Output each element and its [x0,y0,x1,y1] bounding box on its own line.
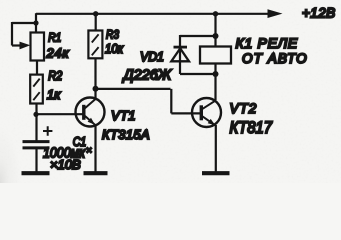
power arrow +12V [268,5,336,20]
node junction R1 wiper [33,20,38,25]
svg-text:×: × [86,145,92,156]
node diode branch bottom [213,71,219,77]
svg-text:R3: R3 [106,28,119,42]
resistor R3 body [88,31,102,59]
wire node to VT1 base [36,113,84,115]
svg-text:Д226Ж: Д226Ж [122,68,173,84]
wire top +12V supply rail [36,13,270,15]
wire diode branch left [179,35,181,74]
ground bar VT2 [202,171,230,175]
svg-text:VT2: VT2 [230,101,258,116]
wire wiper loop horizontal [12,22,37,24]
wire VT2 emitter to ground [215,125,217,172]
svg-text:R1: R1 [48,31,61,45]
wire R1 to R2 [36,61,38,76]
svg-text:+12В: +12В [302,5,336,20]
node base junction [33,112,38,117]
wire VT1 emitter to ground [94,125,96,172]
capacitor C1 [23,126,53,148]
svg-text:КТ315А: КТ315А [102,127,150,142]
node VT1 collector junction [93,86,99,92]
svg-text:VD1: VD1 [140,49,164,64]
wire diode branch bottom [180,73,216,75]
wire rail down to relay [214,14,216,47]
node rail to relay branch [213,11,218,16]
svg-text:ОТ АВТО: ОТ АВТО [242,51,308,66]
wire collector node to VT2 base [96,89,203,114]
svg-text:КТ817: КТ817 [230,119,273,137]
relay K1 coil [200,47,231,64]
diode VD1 [171,47,189,61]
svg-text:1к: 1к [47,87,61,102]
svg-text:К1 РЕЛЕ: К1 РЕЛЕ [236,35,298,51]
wire wiper loop vertical [11,22,13,46]
wire rail left drop to R1 [35,13,37,33]
node rail to R3 [93,11,98,16]
wire R2 to node and C1 [35,103,37,141]
svg-text:×10В: ×10В [50,157,81,172]
transistor VT2 [192,98,221,127]
svg-text:24к: 24к [46,45,70,60]
wire R3 to VT1 collector [94,58,96,99]
ground bar VT1 [84,171,108,175]
resistor R2 body [30,75,43,104]
svg-text:R2: R2 [48,69,62,83]
ground bar C1 [22,171,50,175]
node diode branch top [213,33,219,39]
wire C1 to ground [35,149,37,172]
svg-text:10к: 10к [105,42,124,56]
wire wiper arrow into R1 [12,42,30,50]
potentiometer R1 body [31,33,45,61]
svg-text:VT1: VT1 [111,108,136,123]
transistor VT1 [76,98,105,127]
wire diode branch top [180,35,216,37]
wire rail to R3 [95,14,97,31]
wire relay bottom to VT2 collector [214,64,216,101]
